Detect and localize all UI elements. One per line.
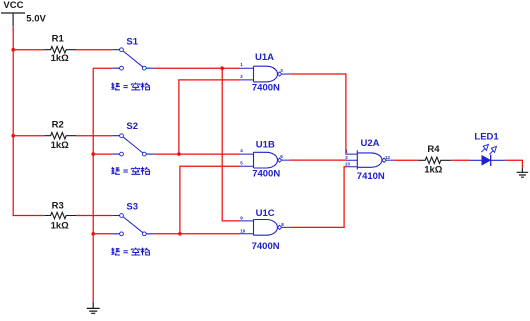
svg-text:7400N: 7400N [252, 241, 280, 252]
LED LED1 [470, 131, 505, 166]
svg-text:7410N: 7410N [357, 171, 385, 182]
wire R3 to S3 [76, 215, 112, 217]
nand gate U1B [240, 139, 289, 179]
resistor R3 [44, 201, 76, 232]
svg-text:3: 3 [280, 68, 283, 73]
key label S3 [111, 248, 150, 256]
svg-text:U1C: U1C [256, 208, 275, 219]
resistor R2 [44, 120, 76, 151]
wire S2 common to U1B pin4 [154, 153, 240, 155]
wire S3 common to U1C pin10 [154, 233, 240, 235]
svg-text:R3: R3 [52, 201, 64, 212]
junction rail-R2 [11, 134, 15, 138]
svg-text:4: 4 [240, 148, 243, 153]
svg-text:LED1: LED1 [474, 131, 499, 142]
svg-text:5: 5 [240, 160, 243, 165]
wire U1C out to U2A pin13 [289, 167, 346, 228]
wire LED1 to ground [505, 160, 523, 168]
power VCC [1, 13, 25, 26]
svg-text:S3: S3 [126, 202, 138, 213]
wire R4 to LED1 [451, 159, 470, 161]
junction rail-R1 [11, 48, 15, 52]
svg-text:1kΩ: 1kΩ [51, 140, 70, 151]
switch S1 [112, 37, 154, 70]
svg-text:1kΩ: 1kΩ [51, 53, 70, 64]
svg-text:1kΩ: 1kΩ [51, 220, 70, 231]
svg-text:10: 10 [240, 228, 246, 233]
svg-text:R4: R4 [427, 144, 440, 155]
svg-text:7400N: 7400N [252, 169, 280, 180]
wire S3 NC contact to ground rail [93, 233, 112, 235]
wire: rail to R1 [13, 49, 44, 51]
wire S2 net to U1A pin2 [179, 80, 240, 154]
switch S3 [112, 202, 154, 236]
svg-text:VCC: VCC [3, 0, 23, 11]
junction S1 net [220, 66, 224, 70]
nand gate U1C [240, 208, 289, 252]
svg-text:1: 1 [240, 62, 243, 67]
wire: rail to R2 [13, 135, 44, 137]
svg-text:2: 2 [345, 155, 348, 160]
junction S2 net [177, 152, 181, 156]
wire R2 to S2 [76, 135, 112, 137]
wire S1 common to U1A pin1 [154, 67, 240, 69]
key label S1 [111, 83, 150, 91]
svg-text:12: 12 [385, 155, 391, 160]
wire S3 net to U1B pin5 [180, 166, 240, 234]
svg-text:6: 6 [280, 154, 283, 159]
junction ground rail-S2 [91, 152, 95, 156]
junction ground rail-S3 [91, 232, 95, 236]
svg-text:U1A: U1A [255, 52, 274, 63]
wire: switch ground rail [92, 68, 94, 302]
wire: VCC left rail [13, 26, 44, 215]
svg-text:R2: R2 [52, 120, 64, 131]
svg-text:S1: S1 [126, 37, 138, 48]
svg-text:5.0V: 5.0V [26, 14, 46, 25]
resistor R4 [418, 144, 451, 176]
nand gate U2A (7410) [345, 138, 394, 182]
wire R1 to S1 [76, 49, 112, 51]
wire S1 NC contact to ground rail [93, 67, 112, 69]
svg-text:7400N: 7400N [252, 82, 280, 93]
resistor R1 [44, 34, 76, 65]
svg-text:1kΩ: 1kΩ [424, 165, 443, 176]
key label S2 [111, 167, 150, 175]
ground (bottom) [87, 302, 100, 314]
svg-text:U2A: U2A [361, 138, 380, 149]
wire U1B out to U2A pin2 [289, 159, 346, 161]
wire S2 NC contact to ground rail [93, 153, 112, 155]
svg-text:9: 9 [240, 216, 243, 221]
svg-text:U1B: U1B [256, 139, 275, 150]
svg-text:R1: R1 [52, 34, 65, 45]
junction S3 net [178, 232, 182, 236]
svg-text:S2: S2 [126, 121, 138, 132]
wire U1A out to U2A pin1 [289, 74, 346, 154]
svg-text:1: 1 [345, 149, 348, 154]
ground (right) [517, 168, 529, 177]
wire S1 net to U1C pin9 [222, 68, 240, 221]
svg-text:2: 2 [240, 74, 243, 79]
switch S2 [112, 121, 154, 156]
wire U2A out to R4 [394, 159, 418, 161]
svg-text:8: 8 [281, 222, 284, 227]
svg-text:13: 13 [345, 161, 351, 166]
nand gate U1A [240, 52, 289, 93]
